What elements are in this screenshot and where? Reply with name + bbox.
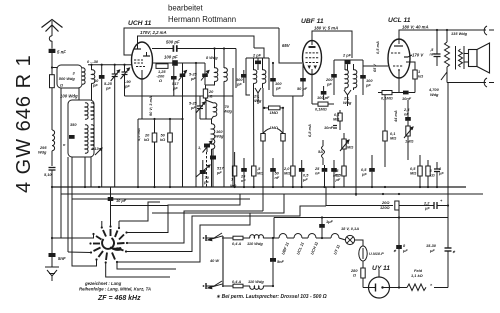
tube UCH 11 <box>128 20 153 79</box>
coil 110 Wdg top <box>247 235 273 246</box>
regulator U.N10.P <box>359 246 384 268</box>
svg-text:170V; 2,2 mA: 170V; 2,2 mA <box>140 30 167 35</box>
coil IFT3 primary <box>345 64 348 90</box>
coil IFT2 primary <box>254 58 257 95</box>
svg-text:kΩ: kΩ <box>160 137 165 142</box>
resistor 0,5 MOhm <box>252 152 264 187</box>
wire gang dashed <box>206 152 208 187</box>
svg-text:90 V; 3 mA: 90 V; 3 mA <box>148 96 153 116</box>
svg-text:kΩ: kΩ <box>418 74 423 79</box>
heater chain <box>273 234 346 241</box>
svg-text:1,: 1, <box>198 145 201 150</box>
wire harness bottom loops <box>106 263 170 278</box>
node bus dots <box>51 186 438 188</box>
capacitor gang ant 70 pF <box>196 160 210 187</box>
svg-text:pF: pF <box>216 170 222 175</box>
svg-text:pF: pF <box>275 86 281 91</box>
ground <box>45 267 59 281</box>
svg-text:180 V; 40 mA: 180 V; 40 mA <box>402 25 429 30</box>
svg-text:Wdg: Wdg <box>215 134 224 139</box>
wire anode 180V <box>399 30 446 39</box>
capacitor 5nF mains <box>270 238 285 286</box>
wire harness y213 <box>152 212 250 214</box>
wire staircase C <box>127 211 263 243</box>
svg-text:2 pF: 2 pF <box>342 53 352 58</box>
svg-text:pF: pF <box>172 86 178 91</box>
resistor 1,25-200 <box>156 64 168 83</box>
svg-text:Wdg: Wdg <box>38 150 47 155</box>
svg-text:nF: nF <box>241 178 246 183</box>
svg-text:ZF = 468 kHz: ZF = 468 kHz <box>97 295 141 302</box>
resistor 50 kOhm <box>160 119 172 187</box>
svg-text:∗ Bei perm. Lautsprecher: Dros: ∗ Bei perm. Lautsprecher: Drossel 103 - … <box>216 294 327 300</box>
trimmer 5-25 pF <box>104 65 120 187</box>
svg-text:nF: nF <box>315 171 320 176</box>
svg-text:pF: pF <box>236 82 242 87</box>
wire can1 to can2 <box>78 88 80 100</box>
svg-text:8 Wdg: 8 Wdg <box>206 55 218 60</box>
svg-text:5nF: 5nF <box>277 259 285 264</box>
capacitor 10 pF line <box>118 221 120 228</box>
capacitor 10 nF agc <box>324 125 337 130</box>
svg-text:Ω: Ω <box>209 94 213 99</box>
svg-text:μF: μF <box>302 177 308 182</box>
resistor 0,1 MOhm agc <box>333 110 342 130</box>
svg-text:10nF: 10nF <box>324 125 334 130</box>
svg-text:Wdg: Wdg <box>224 109 233 114</box>
switch contact dots <box>89 225 128 263</box>
wire harness left 2 <box>67 157 69 252</box>
svg-text:pF: pF <box>190 76 196 81</box>
svg-text:110 Wdg: 110 Wdg <box>248 279 264 284</box>
capacitor 100 pF diode <box>317 86 330 100</box>
svg-text:100 pF: 100 pF <box>164 55 178 60</box>
svg-text:18 V, 0,1A: 18 V, 0,1A <box>341 226 359 231</box>
trimmer 5-25 pF rf b <box>189 63 209 85</box>
wire x326 <box>325 187 327 206</box>
svg-text:MΩ: MΩ <box>347 145 353 150</box>
capacitor 50 nF <box>270 158 280 187</box>
svg-text:180 V; 5 mA: 180 V; 5 mA <box>314 26 338 31</box>
svg-text:350: 350 <box>70 122 77 127</box>
svg-text:pF: pF <box>124 84 130 89</box>
svg-text:nF: nF <box>275 175 280 180</box>
capacitor 10 pF switch <box>108 187 127 203</box>
capacitor 2,2 uF <box>423 198 449 211</box>
wire osc <box>196 95 233 97</box>
capacitor 8 uF <box>393 205 408 288</box>
svg-text:110 Wdg: 110 Wdg <box>247 241 263 246</box>
rectifier UY 11 <box>363 265 390 298</box>
svg-text:bearbeitet: bearbeitet <box>168 4 204 13</box>
svg-text:μF: μF <box>429 248 435 253</box>
svg-text:135 Wdg: 135 Wdg <box>451 31 468 36</box>
node antenna junction <box>51 66 53 68</box>
svg-text:500 pF: 500 pF <box>166 40 180 45</box>
svg-text:44 mA: 44 mA <box>393 110 398 123</box>
coil 110 Wdg bottom <box>248 279 273 289</box>
svg-text:65V: 65V <box>282 43 291 48</box>
resistor 20 Ohm <box>203 81 214 98</box>
resistor 0,1 MOhm decoupling <box>383 95 396 167</box>
svg-text:6,8 mA: 6,8 mA <box>307 124 312 137</box>
capacitor 5 nF output <box>429 29 441 66</box>
core 2 1/4 Wdg IFT3 <box>343 90 352 106</box>
svg-text:L13: L13 <box>92 146 100 151</box>
label 4,700 Wdg <box>428 72 447 97</box>
svg-text:5A: 5A <box>318 149 323 154</box>
wire staircase E <box>117 194 284 262</box>
IF transformer 2 <box>246 48 269 95</box>
antenna <box>42 20 63 42</box>
capacitor 10 pF input <box>99 65 105 187</box>
capacitor 5nF antenna <box>49 41 67 75</box>
IF transformer 3 <box>334 60 363 95</box>
svg-text:4 GW 646 R 1: 4 GW 646 R 1 <box>13 54 35 193</box>
capacitor 300 pF <box>236 70 247 87</box>
capacitor 500 pF <box>152 40 236 89</box>
svg-text:100 Wdg: 100 Wdg <box>60 94 78 99</box>
coil 0..-30 <box>87 59 99 100</box>
svg-text:120Ω: 120Ω <box>380 205 390 210</box>
svg-text:pF: pF <box>326 82 332 87</box>
capacitor 100 pF right <box>360 75 373 88</box>
wire osc grid feed <box>125 95 197 97</box>
svg-text:MΩ: MΩ <box>390 136 396 141</box>
wire 65V grid <box>279 28 302 63</box>
capacitor 2 pF <box>252 53 262 71</box>
wire switch top verticals <box>101 221 103 228</box>
svg-text:Reihenfolge : Lang, Mittel, K: Reihenfolge : Lang, Mittel, Kurz, TA <box>79 287 151 292</box>
svg-text:μF: μF <box>335 177 341 182</box>
svg-text:0,4 A: 0,4 A <box>232 241 241 246</box>
wire cathode down <box>141 79 143 120</box>
svg-text:Hermann Rottmann: Hermann Rottmann <box>168 15 236 24</box>
svg-text:nF: nF <box>404 112 409 117</box>
resistor 280 Ohm <box>350 268 365 288</box>
svg-text:μF: μF <box>361 172 367 177</box>
svg-text:μF: μF <box>424 206 430 211</box>
svg-text:0,5 mA: 0,5 mA <box>375 41 380 54</box>
capacitor 2,5 nF tone <box>403 100 411 126</box>
capacitor 25 nF <box>240 158 247 187</box>
svg-text:MΩ: MΩ <box>333 117 339 122</box>
coil can 2 100Wdg/350 <box>60 94 102 158</box>
transformer output secondary <box>456 46 463 70</box>
svg-text:Ω: Ω <box>352 273 356 278</box>
coil 160 Wdg oscillator <box>212 119 225 187</box>
svg-text:kΩ: kΩ <box>144 137 149 142</box>
svg-text:U.N10.P: U.N10.P <box>369 251 384 256</box>
core 2 1/4 Wdg <box>253 88 262 104</box>
wire anode 170V <box>138 36 255 48</box>
svg-text:2 pF: 2 pF <box>252 53 262 58</box>
svg-text:40 W: 40 W <box>209 258 219 263</box>
wire AF coupling <box>363 65 388 67</box>
coil IFT3 secondary <box>354 64 357 90</box>
svg-text:50 pF: 50 pF <box>297 86 308 91</box>
trimmer 5-25 pF rf a <box>179 63 187 96</box>
svg-text:UBF 11: UBF 11 <box>301 18 324 25</box>
capacitor 0,5 uF decoupling <box>361 155 375 187</box>
wire IFT1 secondary down <box>223 81 225 187</box>
trimmer L90 <box>121 65 132 96</box>
trimmer 5-25 pF osc <box>189 96 205 119</box>
connector arc bottom <box>447 78 494 87</box>
svg-text:MΩ: MΩ <box>410 171 416 176</box>
wire bus2 <box>61 193 483 195</box>
fuse 5A <box>318 140 325 165</box>
svg-text:1MΩ: 1MΩ <box>405 139 413 144</box>
svg-text:pF: pF <box>365 83 371 88</box>
svg-text:65 V: 65 V <box>372 64 377 72</box>
svg-text:1MΩ: 1MΩ <box>270 110 278 115</box>
svg-text:0,4 A: 0,4 A <box>232 279 241 284</box>
wire UY11 anode stub <box>378 270 380 277</box>
coil IFT2 secondary <box>263 58 266 88</box>
resistor 1 MOhm pair <box>261 88 285 211</box>
coil IFT1 primary <box>215 68 218 82</box>
resistor 2,0 MOhm <box>283 152 295 187</box>
resistor Feld 1,1 kOhm <box>407 268 448 291</box>
resistor 1 kOhm cathode <box>406 62 423 88</box>
svg-text:pF: pF <box>92 83 98 88</box>
antenna coil can 500 Wdg / 3 <box>57 65 85 88</box>
svg-text:Wdg: Wdg <box>430 92 439 97</box>
coil 295 Wdg <box>38 130 55 166</box>
capacitor 2 pF IFT3 <box>342 53 352 71</box>
resistor 0,5 MOhm right <box>410 155 422 187</box>
svg-text:5,10: 5,10 <box>44 172 52 177</box>
wire grid line <box>88 64 132 66</box>
svg-text:100 pF: 100 pF <box>317 95 330 100</box>
IF transformer 1 <box>206 49 224 69</box>
svg-text:5 nF: 5 nF <box>57 50 66 55</box>
connector arc top <box>446 26 494 35</box>
svg-text:pF: pF <box>190 105 196 110</box>
capacitor 1 uF heater <box>274 216 448 239</box>
wire top bus g <box>124 28 279 55</box>
svg-text:500 Wdg: 500 Wdg <box>59 76 76 81</box>
label 170 V <box>408 53 424 58</box>
wire cathode 1k junction <box>414 88 416 93</box>
capacitor gang osc 517 pF <box>210 149 224 187</box>
wire staircase B <box>127 194 241 233</box>
fuse 0,4A top <box>222 236 250 246</box>
svg-text:MΩ: MΩ <box>257 171 263 176</box>
capacitor 15-30 uF <box>426 83 456 288</box>
capacitor 1 uF <box>434 162 444 187</box>
svg-text:μF: μF <box>438 171 444 176</box>
tube UBF 11 <box>301 18 324 75</box>
svg-text:0,1MΩ: 0,1MΩ <box>381 96 393 101</box>
wire staircase D <box>126 206 326 252</box>
resistor 500 Wdg former <box>50 75 55 130</box>
svg-text:μF: μF <box>402 248 408 253</box>
tube UCL 11 <box>388 17 411 78</box>
wire anode 190V <box>312 31 352 58</box>
svg-text:1,1 kΩ: 1,1 kΩ <box>411 273 423 278</box>
wire line y205 <box>326 205 393 207</box>
svg-text:UY 11: UY 11 <box>372 265 390 272</box>
speaker <box>464 43 490 73</box>
resistor 0,1 MOhm grid <box>378 91 399 101</box>
capacitor 25 nF b <box>314 165 327 187</box>
svg-text:gezeichnet : Lang: gezeichnet : Lang <box>84 281 122 286</box>
fuse 0,4A bottom <box>222 279 250 288</box>
wire harness long y199 <box>72 198 250 200</box>
transformer output primary <box>445 29 450 78</box>
svg-text:0,1MΩ: 0,1MΩ <box>315 107 327 112</box>
svg-text:pF: pF <box>105 86 111 91</box>
capacitor 5nF to ground <box>49 253 67 267</box>
capacitor 10 nF coupling <box>399 78 415 101</box>
wire screen junction <box>142 118 183 120</box>
capacitor 200 pF left <box>325 74 337 87</box>
wire harness y205 left <box>111 205 169 207</box>
resistor 20/120 Ohm <box>380 200 434 212</box>
capacitor 0,5 uF <box>299 160 309 187</box>
capacitor 517 pF upper <box>172 81 179 91</box>
wire switch left feed <box>52 234 94 238</box>
wire coil taps can2 <box>84 157 86 187</box>
resistor 5 kOhm <box>426 160 435 187</box>
switch link 40W <box>208 236 223 289</box>
wire bottom rail right <box>390 287 400 289</box>
capacitor 100 pF grid <box>270 62 303 96</box>
coil 70 Wdg <box>206 98 233 119</box>
wire harness left verticals <box>60 88 62 238</box>
wire main ground bus <box>52 186 466 188</box>
resistor 20 kOhm <box>144 119 157 187</box>
svg-text:nF: nF <box>430 52 435 57</box>
svg-text:0 ..-30: 0 ..-30 <box>87 59 99 64</box>
wire IFT2 primary down <box>253 95 255 152</box>
wire left column below bus <box>51 187 53 253</box>
capacitor 5,10 <box>44 168 56 188</box>
power plug top <box>203 233 222 241</box>
svg-text:MΩ: MΩ <box>284 171 290 176</box>
svg-text:Ω: Ω <box>158 78 162 83</box>
wire staircase A <box>119 202 160 221</box>
svg-text:Ω: Ω <box>59 83 63 88</box>
capacitor 100 pF <box>152 55 205 188</box>
svg-text:UCH 11: UCH 11 <box>128 20 152 27</box>
svg-text:170 V: 170 V <box>412 53 424 58</box>
resistor 1 MOhm horizontal <box>263 106 284 115</box>
svg-text:10nF: 10nF <box>402 96 412 101</box>
components row mid: resistor 1 MOhm <box>230 152 237 188</box>
wire harness bottom loop 2 <box>117 262 176 269</box>
potentiometer 1 MOhm tone <box>404 126 413 160</box>
svg-text:kΩ: kΩ <box>430 173 435 178</box>
svg-text:1MΩ: 1MΩ <box>270 125 278 130</box>
capacitor 517 pF hang <box>171 62 177 96</box>
wire diode load <box>292 96 294 152</box>
potentiometer 1 MOhm volume <box>333 133 353 187</box>
coil IFT1 secondary <box>224 68 227 82</box>
power plug bottom <box>203 281 222 289</box>
svg-text:UCL 11: UCL 11 <box>388 17 411 24</box>
svg-text:5nF: 5nF <box>58 256 66 261</box>
trimmer osc padder <box>198 141 212 153</box>
band switch <box>93 229 125 260</box>
capacitor 50 pF <box>297 63 308 96</box>
wire to coil can <box>52 67 57 69</box>
node psu left <box>272 237 274 239</box>
resistor 0,1 MOhm det <box>312 75 334 112</box>
svg-text:1μF: 1μF <box>326 219 334 224</box>
wire IFT1 right down <box>232 68 234 187</box>
lamp 18V 0,1A <box>341 226 363 246</box>
wire harness bottom loop left <box>72 157 97 266</box>
capacitor 0,5 uF b <box>331 160 342 187</box>
